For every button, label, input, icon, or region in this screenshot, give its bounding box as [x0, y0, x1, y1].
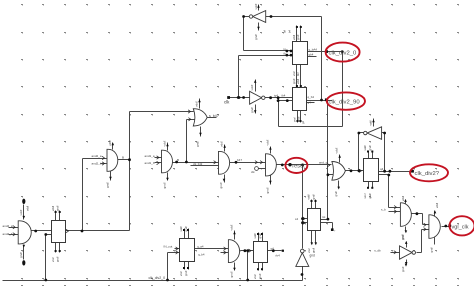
- svg-text:gnd!: gnd!: [184, 270, 188, 276]
- svg-text:and1_a: and1_a: [145, 154, 155, 158]
- svg-text:clk_div2_0: clk_div2_0: [329, 51, 358, 57]
- svg-text:vdd!: vdd!: [253, 233, 257, 239]
- svg-text:reset: reset: [292, 164, 305, 170]
- svg-text:IN_out: IN_out: [164, 245, 173, 249]
- svg-text:qb4: qb4: [309, 53, 314, 57]
- svg-text:and1_b: and1_b: [145, 161, 155, 165]
- svg-text:q_bA4: q_bA4: [309, 47, 318, 51]
- svg-text:vdd!: vdd!: [250, 85, 254, 91]
- svg-text:rb4: rb4: [276, 253, 281, 257]
- svg-text:clk_div2?: clk_div2?: [415, 171, 440, 177]
- svg-text:vdd!: vdd!: [363, 145, 367, 151]
- svg-text:b47: b47: [237, 158, 242, 162]
- svg-text:gnd!: gnd!: [19, 252, 23, 258]
- svg-text:gnd!: gnd!: [230, 271, 234, 277]
- svg-text:vdd!: vdd!: [265, 140, 269, 146]
- svg-text:q_a4: q_a4: [197, 244, 204, 248]
- svg-text:vdd!: vdd!: [307, 194, 311, 200]
- svg-text:q4: q4: [271, 246, 275, 250]
- svg-text:gnd: gnd: [310, 254, 316, 258]
- svg-text:vdd!: vdd!: [51, 205, 55, 211]
- svg-text:vdd!: vdd!: [230, 225, 234, 231]
- svg-text:gnd!: gnd!: [254, 34, 258, 40]
- svg-text:iq: iq: [284, 47, 287, 51]
- svg-text:vdd!: vdd!: [163, 141, 167, 147]
- svg-text:gnd!: gnd!: [334, 191, 338, 197]
- svg-text:gnd!: gnd!: [311, 248, 315, 253]
- svg-text:ib: ib: [284, 52, 287, 56]
- svg-text:and4_a: and4_a: [3, 224, 13, 228]
- svg-text:vdd!: vdd!: [19, 210, 23, 216]
- svg-text:vss!: vss!: [51, 257, 55, 262]
- svg-text:s_b47: s_b47: [209, 114, 219, 118]
- svg-text:clk_div2_90: clk_div2_90: [329, 100, 361, 106]
- svg-text:vdd!: vdd!: [335, 148, 339, 154]
- svg-text:vdd!: vdd!: [401, 195, 405, 201]
- svg-text:ib4: ib4: [282, 93, 286, 97]
- svg-text:gnd!: gnd!: [106, 182, 110, 188]
- svg-text:vss!: vss!: [307, 248, 311, 253]
- svg-text:gnd!: gnd!: [401, 234, 405, 239]
- svg-text:gnd!: gnd!: [56, 256, 60, 262]
- svg-text:B: B: [122, 156, 124, 160]
- svg-text:and_q: and_q: [319, 161, 328, 165]
- svg-text:n_db: n_db: [374, 249, 381, 253]
- svg-text:vdd!: vdd!: [296, 78, 300, 84]
- svg-text:gnd!: gnd!: [401, 266, 405, 272]
- svg-text:vss!: vss!: [363, 193, 367, 198]
- svg-text:and4_b: and4_b: [3, 232, 13, 236]
- svg-text:q_b4: q_b4: [308, 95, 315, 99]
- svg-text:gnd!: gnd!: [368, 145, 372, 151]
- svg-text:gnd!: gnd!: [163, 182, 167, 188]
- svg-text:clk: clk: [251, 170, 255, 174]
- svg-text:gnd!: gnd!: [296, 34, 300, 40]
- svg-text:vdd!: vdd!: [369, 120, 373, 126]
- svg-text:gnd!: gnd!: [258, 273, 262, 279]
- svg-text:bb!: bb!: [296, 72, 300, 76]
- svg-text:iq4: iq4: [274, 93, 278, 97]
- svg-text:s_b: s_b: [381, 208, 386, 212]
- svg-text:gnd!: gnd!: [219, 182, 223, 188]
- svg-text:gnd!: gnd!: [250, 107, 254, 113]
- svg-text:vdd!: vdd!: [195, 101, 199, 107]
- svg-text:gnd!: gnd!: [196, 141, 200, 147]
- svg-text:clk_div2_0: clk_div2_0: [149, 276, 166, 280]
- svg-text:and2_b: and2_b: [92, 162, 102, 166]
- svg-text:vdd!: vdd!: [108, 140, 112, 146]
- svg-text:gnd!: gnd!: [265, 187, 269, 193]
- svg-text:gnd!: gnd!: [429, 247, 433, 253]
- svg-text:B: B: [177, 158, 179, 162]
- svg-text:s4: s4: [295, 217, 298, 221]
- svg-text:gnd!: gnd!: [312, 194, 316, 200]
- svg-text:vdd!: vdd!: [435, 202, 439, 208]
- svg-text:vdd!: vdd!: [254, 4, 258, 10]
- svg-text:gnd!: gnd!: [56, 205, 60, 211]
- svg-text:clk_b42: clk_b42: [193, 162, 203, 166]
- svg-text:q_b4: q_b4: [198, 252, 205, 256]
- svg-text:vdd!: vdd!: [179, 226, 183, 232]
- svg-text:vss!: vss!: [179, 271, 183, 276]
- svg-text:gnd!: gnd!: [184, 226, 188, 232]
- svg-text:clk: clk: [224, 100, 230, 105]
- svg-text:gnd!: gnd!: [297, 116, 301, 122]
- svg-text:rst: rst: [322, 215, 325, 219]
- svg-text:vgl_clk: vgl_clk: [452, 225, 469, 231]
- svg-text:gnd!: gnd!: [368, 193, 372, 199]
- svg-text:q4: q4: [308, 100, 312, 104]
- svg-text:q4: q4: [380, 167, 384, 171]
- svg-text:gnd!: gnd!: [258, 233, 262, 239]
- svg-text:vdd!: vdd!: [220, 141, 224, 147]
- svg-text:and2_a: and2_a: [92, 154, 102, 158]
- svg-text:vss!: vss!: [253, 274, 257, 279]
- svg-text:vdd!: vdd!: [26, 205, 30, 211]
- svg-text:r: r: [335, 229, 336, 233]
